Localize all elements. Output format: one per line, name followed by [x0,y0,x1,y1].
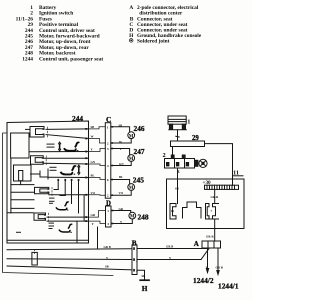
wire C6 to motor 245 [111,180,130,184]
key symbol [199,159,207,167]
wire bus to ignition switch [172,147,174,156]
wire C7 to motor 245 [111,190,131,195]
wire switch to dist center [177,168,179,204]
pin dashes S1 [47,127,49,137]
positive terminal bus 29 [171,141,205,147]
svg-text:1244: 1244 [22,56,33,62]
tiny switch labels [16,144,57,233]
svg-text:2: 2 [163,152,166,159]
ground H symbol [140,279,149,281]
svg-text:B: B [132,238,137,247]
svg-text:245: 245 [133,176,144,185]
seat icon 3 backrest [56,201,69,210]
svg-text:244: 244 [72,114,83,123]
wire D1 to motor 248 [111,211,131,213]
svg-text:SB: SB [91,125,95,129]
seat icon 1 up-down [58,142,80,151]
svg-text:GR B: GR B [216,266,223,270]
svg-text:6: 6 [107,178,109,182]
svg-text:246: 246 [134,124,145,133]
pin dashes S3 [51,187,53,195]
svg-text:247: 247 [134,147,145,156]
svg-text:248: 248 [138,212,149,221]
wire C2 to motor 246 [111,139,131,143]
svg-text:3: 3 [136,269,138,273]
svg-text:M: M [129,186,134,191]
svg-text:VO: VO [91,191,96,195]
left bus wire [10,158,12,213]
wire fuse down [214,189,216,203]
switch housing S1 [30,127,44,138]
svg-text:GR B: GR B [166,245,173,249]
battery 1 [168,116,186,130]
seat icon 2 forward-back [61,165,81,175]
wire rows group4 [11,199,34,201]
pin dashes S2 [45,156,47,165]
inner electronics box [11,133,29,158]
svg-text:2: 2 [107,194,109,198]
svg-text:Soldered joint: Soldered joint [137,38,170,44]
connector housings in dist center [170,204,176,220]
seat icon 4 [59,224,72,233]
svg-text:H: H [142,284,148,293]
svg-text:Control unit, passenger seat: Control unit, passenger seat [39,56,103,62]
motor M245 [128,184,135,191]
svg-text:4: 4 [107,164,109,168]
wires down to seat bus [76,221,78,243]
switch housing S3 [35,187,49,193]
svg-text:D: D [106,201,111,208]
svg-text:M: M [129,134,134,139]
ignition switch 2 [165,155,198,168]
svg-text:A: A [129,5,133,11]
wire battery to bus 29 [177,130,179,141]
wire rows group2 [29,151,89,153]
in-line fuse bottom [32,252,37,265]
wire C4 to motor 247 [111,161,131,165]
ground wire from B pin3 [137,270,145,279]
wire rows group1 [26,128,31,130]
wire to connector A [214,219,216,241]
svg-text:1: 1 [187,119,190,126]
svg-text:GR B: GR B [104,245,111,249]
legend right column [129,5,202,44]
svg-text:1: 1 [136,247,138,251]
staircase wires box to C [89,127,106,224]
wire to C pin4 [43,162,88,165]
svg-text:1: 1 [107,125,109,129]
fuse F in seat module [19,171,23,181]
svg-text:SB: SB [105,265,109,269]
wire C3 to motor 247 [111,149,130,155]
wire bus to fuse 11 [205,144,233,186]
distribution center box A [167,179,245,229]
svg-text:3: 3 [107,147,109,151]
svg-text:W: W [119,140,122,144]
wire A to 1244/2 [207,248,209,269]
svg-text:1244/2: 1244/2 [193,276,214,285]
fuse strip [205,185,239,189]
svg-text:16: 16 [171,209,175,213]
svg-text:BL: BL [91,174,95,178]
svg-text:M: M [130,215,135,220]
wire labels small [91,123,223,278]
svg-text:GR-R: GR-R [206,235,214,239]
svg-text:3: 3 [107,222,109,226]
svg-text:VO: VO [119,191,124,195]
svg-text:C: C [106,115,111,124]
connector D strip [106,206,112,227]
connector pin numbers [107,125,138,273]
contact bracket right of fuse box [31,169,49,179]
svg-text:SB: SB [119,123,123,127]
svg-text:BL: BL [119,175,123,179]
soldered joint symbol in legend [129,39,133,43]
control unit 244 box [7,121,89,243]
connector B strip [132,245,137,275]
connector C strip [105,123,111,199]
wire C1 to motor 246 [111,127,130,132]
motor M247 [128,155,135,162]
fuse sub-box [14,165,32,181]
switch housing S2 [31,156,44,165]
svg-text:A: A [194,240,199,248]
svg-text:W: W [91,135,94,139]
legend left column [16,5,104,62]
svg-text:2: 2 [136,258,138,262]
vertical wires column [54,179,84,221]
svg-text:2: 2 [107,141,109,145]
connector pin marks at box edge [85,126,113,224]
outer thin frame [3,133,113,276]
wire above box bottom [7,239,89,241]
seat wires to connector B [7,249,132,250]
wire B to A, GR [137,248,208,250]
svg-text:SB: SB [175,187,179,191]
svg-text:1: 1 [107,209,109,213]
motor M246 [128,132,135,139]
svg-text:1244/1: 1244/1 [218,282,239,291]
connector A [202,241,221,248]
motor M248 [129,212,136,219]
wire D3 to motor 248 [111,219,132,224]
svg-text:M: M [129,157,134,162]
wire to C pin6 [49,176,89,178]
wire B to A, Y [137,259,201,261]
wire A to 1244/1 [217,248,219,271]
svg-text:SB: SB [142,274,146,278]
switch housing S4 [34,213,46,220]
